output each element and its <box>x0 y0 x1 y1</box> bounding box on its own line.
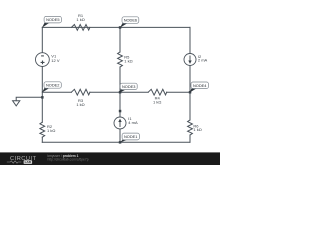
label R6 value <box>193 123 201 132</box>
node NODE6 flag top-middle <box>120 17 139 28</box>
wire top rail <box>42 26 190 28</box>
svg-text:1 kΩ: 1 kΩ <box>153 100 161 105</box>
wire left rail mid <box>41 66 43 122</box>
wire middle rail lower <box>119 129 121 142</box>
wire right rail mid <box>189 66 191 121</box>
svg-text:1 kΩ: 1 kΩ <box>76 102 84 107</box>
svg-text:2 mA: 2 mA <box>198 58 208 63</box>
label R4 value <box>153 96 161 105</box>
label R3 value <box>76 98 84 107</box>
svg-text:1 kΩ: 1 kΩ <box>47 128 55 133</box>
svg-text:CIRCUIT: CIRCUIT <box>10 156 37 162</box>
svg-text:LAB: LAB <box>25 160 32 164</box>
resistor R6 <box>188 120 193 135</box>
current source I2 <box>184 54 196 66</box>
label V1 value <box>51 54 60 63</box>
junction dot NODE3 center <box>119 91 122 94</box>
wire middle rail upper <box>119 27 121 52</box>
watermark logo LAB badge <box>24 160 32 164</box>
wire left rail upper <box>41 27 43 52</box>
wire bottom rail <box>42 141 190 143</box>
junction dot NODE2 / ground tie <box>41 96 44 99</box>
svg-text:NODE1: NODE1 <box>124 134 137 139</box>
junction dot NODE4 right <box>189 91 192 94</box>
node NODE3 flag center <box>120 83 138 93</box>
wire middle horizontal right <box>167 91 190 93</box>
svg-text:12 V: 12 V <box>51 58 60 63</box>
resistor R5 <box>118 52 123 67</box>
junction dot wire joint above I1 <box>119 110 122 113</box>
current source I1 <box>114 117 126 129</box>
resistor R2 <box>40 122 45 137</box>
label R5 value <box>124 54 132 63</box>
wire middle horizontal center <box>90 91 148 93</box>
node NODE1 flag bottom-middle <box>120 133 139 143</box>
svg-text:1 kΩ: 1 kΩ <box>193 127 201 132</box>
svg-text:NODE5: NODE5 <box>46 17 59 22</box>
svg-text:NODE3: NODE3 <box>122 84 135 89</box>
ground <box>13 101 20 106</box>
resistor R1 <box>71 25 90 31</box>
svg-text:NODE6: NODE6 <box>124 18 137 23</box>
node NODE2 flag left-middle <box>42 82 61 93</box>
voltage source V1 <box>36 53 50 67</box>
label R2 value <box>47 124 55 133</box>
svg-text:NODE4: NODE4 <box>193 83 207 88</box>
svg-text:1 kΩ: 1 kΩ <box>76 17 84 22</box>
resistor R3 <box>71 89 90 95</box>
watermark logo zigzag <box>7 161 22 163</box>
wire middle rail mid <box>119 67 121 117</box>
wire middle horizontal left <box>42 91 71 93</box>
wire right rail lower <box>189 135 191 142</box>
label R1 value <box>76 13 84 22</box>
wire left rail lower <box>41 137 43 142</box>
junction dot NODE6 top rail <box>119 26 122 29</box>
label I2 value <box>198 54 208 63</box>
watermark bar <box>0 152 220 165</box>
label I1 value <box>128 116 138 125</box>
node NODE4 flag right-middle <box>190 82 209 93</box>
svg-text:1 kΩ: 1 kΩ <box>124 58 132 63</box>
svg-text:4 mA: 4 mA <box>128 120 138 125</box>
svg-text:NODE2: NODE2 <box>46 83 59 88</box>
node NODE5 flag top-left <box>42 16 61 27</box>
wire right rail upper <box>189 27 191 53</box>
svg-text:http://circuitlab.com/c/6pe7p: http://circuitlab.com/c/6pe7p <box>48 158 89 162</box>
resistor R4 <box>148 89 167 95</box>
junction dot NODE1 bottom rail <box>119 141 122 144</box>
wire ground stub <box>16 97 42 101</box>
